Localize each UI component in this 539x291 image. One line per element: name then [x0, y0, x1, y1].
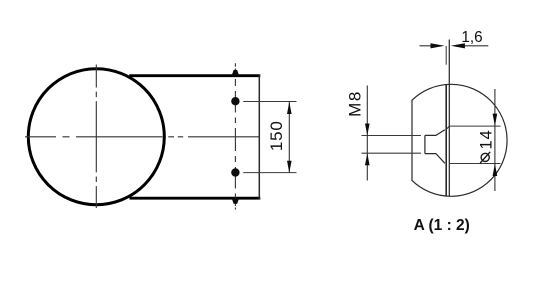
M8 dimension line — [366, 86, 368, 181]
rectangle right edge (shaft end face) — [258, 74, 260, 199]
extension line upper (dia 14) — [449, 125, 500, 127]
extension line left (dim 1,6) — [445, 46, 447, 65]
hole axis centerline — [234, 63, 236, 209]
detail view boundary — [412, 84, 507, 196]
hole axis bottom tick — [232, 198, 240, 204]
svg-text:M8: M8 — [346, 90, 365, 117]
hole center dot upper — [231, 97, 239, 105]
svg-text:14: 14 — [478, 130, 496, 150]
face chamfer diagonal top — [446, 126, 449, 130]
hole center dot lower — [231, 168, 239, 176]
extension line lower (dia 14) — [450, 163, 501, 165]
main circle (ball end, side view) — [28, 69, 164, 205]
rectangle bottom edge (shaft outline) — [130, 197, 261, 200]
dim 1,6 arrow pointing right — [431, 43, 445, 48]
dimension text dia 14 : diameter symbol circle — [481, 153, 489, 161]
svg-text:150: 150 — [267, 120, 286, 151]
dimension 150 arrow down — [287, 161, 292, 173]
dimension line 1,6 right segment — [463, 45, 488, 47]
dimension line 1,6 left segment — [420, 45, 433, 47]
extension line upper (dim 150) — [243, 101, 296, 103]
rectangle top edge (shaft outline) — [129, 74, 260, 77]
svg-text:1,6: 1,6 — [461, 29, 482, 46]
extension line right (dim 1,6) — [448, 40, 450, 85]
dia 14 arrow up — [493, 164, 498, 177]
M8 arrow down — [365, 124, 370, 136]
dimension line 150 — [288, 102, 290, 173]
vertical centerline of circle — [95, 65, 97, 209]
svg-text:A (1 : 2): A (1 : 2) — [414, 217, 470, 234]
M8 extension line lower — [362, 152, 421, 154]
M8 arrow up — [365, 153, 370, 165]
M8 extension line upper — [362, 135, 421, 137]
face edge line left — [445, 85, 447, 197]
hole axis top tick — [232, 70, 240, 76]
face edge line right — [448, 84, 450, 196]
dimension line dia 14 — [494, 89, 496, 191]
dimension text dia 14 : diameter symbol slash — [480, 152, 490, 163]
tapped hole profile — [425, 130, 445, 164]
dia 14 arrow down — [493, 114, 498, 127]
dimension 150 arrow up — [287, 102, 292, 114]
horizontal centerline of shaft — [25, 136, 259, 138]
dim 1,6 arrow pointing left — [451, 43, 465, 48]
extension line lower (dim 150) — [243, 172, 296, 174]
